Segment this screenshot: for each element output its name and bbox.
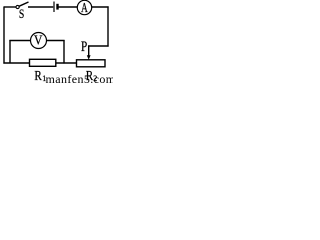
voltmeter branch right vertical	[63, 40, 65, 64]
voltmeter branch right horizontal	[47, 40, 65, 42]
wire switch to battery	[28, 6, 53, 8]
voltmeter branch left horizontal	[9, 40, 30, 42]
svg-text:P: P	[81, 39, 87, 55]
slider arrow wire vertical	[88, 45, 90, 56]
svg-text:1: 1	[42, 74, 46, 83]
wire battery to ammeter	[59, 6, 78, 8]
wire bottom-left to R1	[3, 62, 29, 64]
battery long plate	[53, 2, 55, 13]
wire right vertical	[107, 6, 109, 46]
slider arrowhead	[87, 55, 91, 59]
battery short plate	[56, 4, 58, 10]
switch S blade	[19, 2, 28, 6]
wire top-left from corner to switch	[4, 6, 16, 8]
wire ammeter to top-right corner	[92, 6, 109, 8]
ammeter circle	[77, 0, 91, 14]
voltmeter branch left vertical	[9, 40, 11, 63]
wire left vertical	[3, 6, 5, 63]
svg-text:manfen5.com: manfen5.com	[46, 72, 114, 84]
svg-text:2: 2	[93, 74, 97, 83]
wire to slider horizontal	[88, 45, 109, 47]
voltmeter V circle	[31, 33, 47, 49]
resistor R1 body	[30, 59, 56, 66]
background	[0, 0, 113, 84]
svg-text:R: R	[34, 69, 42, 84]
wire bottom between R1 and R2	[56, 62, 77, 64]
svg-text:V: V	[34, 34, 42, 49]
svg-text:A: A	[81, 0, 88, 15]
switch S pivot	[16, 5, 19, 8]
rheostat R2 body	[77, 60, 106, 67]
svg-text:S: S	[19, 7, 24, 21]
